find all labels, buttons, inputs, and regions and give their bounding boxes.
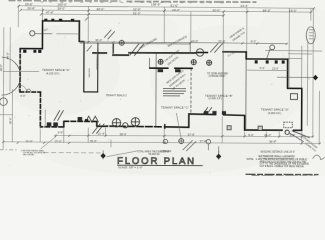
svg-text:36'-8": 36'-8" xyxy=(269,140,276,144)
svg-text:57'-8": 57'-8" xyxy=(188,133,195,137)
svg-text:8'-0": 8'-0" xyxy=(251,40,257,44)
svg-text:158'-8": 158'-8" xyxy=(151,2,161,6)
svg-text:6'-0": 6'-0" xyxy=(20,94,25,98)
svg-text:84'-0": 84'-0" xyxy=(263,9,271,13)
svg-text:4 SPACES: 4 SPACES xyxy=(160,150,172,153)
svg-text:EXTERIOR WALL LEGEND: EXTERIOR WALL LEGEND xyxy=(259,154,295,158)
svg-text:9'-8": 9'-8" xyxy=(290,133,296,137)
svg-text:21'-0": 21'-0" xyxy=(264,133,271,137)
svg-text:9'-0": 9'-0" xyxy=(248,133,254,137)
svg-text:SEE DETAIL: SEE DETAIL xyxy=(23,153,36,156)
svg-text:30'-0": 30'-0" xyxy=(96,7,104,11)
svg-text:28'-0": 28'-0" xyxy=(0,64,3,71)
svg-text:29'-8": 29'-8" xyxy=(27,6,35,10)
svg-text:30'-0": 30'-0" xyxy=(95,38,102,42)
svg-text:23'-4": 23'-4" xyxy=(240,4,248,8)
svg-text:28'-0": 28'-0" xyxy=(57,7,65,11)
svg-text:(2,400 S.F.): (2,400 S.F.) xyxy=(208,96,222,100)
svg-text:81'-0": 81'-0" xyxy=(170,3,178,7)
svg-text:SERVICE: SERVICE xyxy=(89,68,91,78)
svg-text:5'-4": 5'-4" xyxy=(260,66,265,70)
svg-text:47'-8": 47'-8" xyxy=(46,11,54,15)
svg-text:32'-0": 32'-0" xyxy=(218,39,225,43)
svg-text:36'-0": 36'-0" xyxy=(8,117,12,124)
svg-text:32'-0": 32'-0" xyxy=(212,8,220,12)
svg-text:16'-0": 16'-0" xyxy=(289,9,297,13)
svg-text:6'-8": 6'-8" xyxy=(58,131,64,135)
svg-text:23'-0": 23'-0" xyxy=(272,66,279,70)
svg-text:CHINESE REST.: CHINESE REST. xyxy=(209,76,227,78)
svg-text:(4,200 S.F.): (4,200 S.F.) xyxy=(46,71,60,75)
svg-text:24'-0": 24'-0" xyxy=(172,8,180,12)
svg-text:81'-0": 81'-0" xyxy=(133,11,141,15)
svg-text:78'-0": 78'-0" xyxy=(90,139,97,143)
svg-text:21'-4": 21'-4" xyxy=(98,132,105,136)
svg-text:CUT 8 BLDG. VISIBLE TOP DECK A: CUT 8 BLDG. VISIBLE TOP DECK ABOVE xyxy=(260,165,305,168)
svg-text:24'-0": 24'-0" xyxy=(191,39,198,43)
svg-text:NOTE:: NOTE: xyxy=(247,159,254,161)
svg-text:(3,000 S.F.): (3,000 S.F.) xyxy=(268,111,282,115)
svg-text:TENANT SPACE "C": TENANT SPACE "C" xyxy=(161,106,189,110)
svg-text:31'-0": 31'-0" xyxy=(26,139,33,143)
svg-text:37'-0": 37'-0" xyxy=(55,139,62,143)
svg-text:44'-0": 44'-0" xyxy=(6,52,10,59)
svg-text:57'-8": 57'-8" xyxy=(200,139,207,143)
svg-text:SCALE: 1/8" = 1'-0": SCALE: 1/8" = 1'-0" xyxy=(118,165,142,169)
svg-text:TENANT SEALS 2: TENANT SEALS 2 xyxy=(106,94,127,97)
svg-text:58'-0": 58'-0" xyxy=(120,132,127,136)
